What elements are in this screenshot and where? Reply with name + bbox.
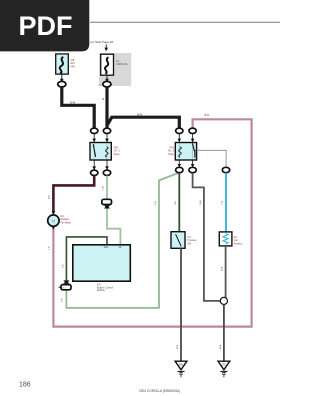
svg-text:Radiator: Radiator [61, 218, 70, 221]
svg-text:W-B: W-B [221, 266, 223, 271]
svg-text:M: M [52, 218, 56, 223]
svg-text:PDF: PDF [19, 11, 73, 41]
svg-text:B: B [102, 97, 104, 101]
svg-text:186: 186 [19, 382, 31, 389]
svg-text:B-R: B-R [49, 195, 51, 199]
svg-text:L-B: L-B [222, 201, 224, 205]
svg-text:C/B: C/B [71, 60, 75, 62]
svg-text:Fan: Fan [234, 240, 239, 242]
svg-text:Relay: Relay [114, 154, 121, 156]
svg-text:ion Side Page 46: ion Side Page 46 [90, 40, 113, 44]
svg-text:EB: EB [179, 363, 183, 367]
svg-text:FAN: FAN [114, 147, 119, 150]
svg-text:2004 COROLLA (EWD533U): 2004 COROLLA (EWD533U) [139, 389, 180, 393]
svg-text:B-R: B-R [205, 113, 210, 117]
svg-text:RDI: RDI [71, 63, 75, 65]
svg-text:Resistor: Resistor [234, 242, 243, 245]
svg-text:MAIN 2.0L: MAIN 2.0L [117, 63, 129, 66]
svg-text:Module: Module [97, 289, 106, 292]
svg-text:FAN: FAN [71, 65, 76, 68]
svg-text:FAN: FAN [170, 147, 175, 150]
svg-text:W-B: W-B [177, 344, 179, 349]
svg-text:L-R: L-R [62, 298, 64, 302]
svg-text:W-B: W-B [200, 200, 202, 205]
svg-text:Relay: Relay [168, 154, 175, 156]
svg-text:Fan Motor: Fan Motor [61, 221, 72, 224]
svg-text:EC: EC [222, 363, 226, 367]
svg-text:W-B: W-B [220, 344, 222, 349]
svg-text:NO. 2: NO. 2 [168, 151, 175, 153]
svg-text:1J: 1J [99, 85, 101, 87]
svg-text:B-W: B-W [137, 112, 143, 116]
svg-text:Pressure: Pressure [188, 239, 198, 242]
svg-text:FAN: FAN [104, 246, 109, 249]
svg-text:L-R: L-R [155, 201, 157, 205]
svg-text:L-R: L-R [62, 264, 64, 268]
svg-text:GR: GR [175, 201, 177, 205]
svg-text:NO. 1: NO. 1 [114, 151, 121, 153]
svg-text:L-R: L-R [48, 246, 50, 250]
svg-text:B-W: B-W [70, 100, 76, 104]
